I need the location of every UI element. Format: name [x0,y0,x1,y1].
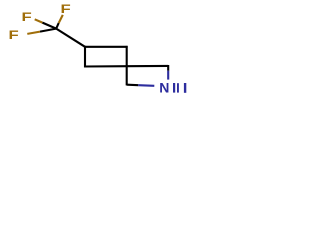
cyclobutane right edge + azetidine left edge (shared vertical) [126,46,128,86]
azetidine bottom bond C-N (black half) [127,84,139,87]
svg-text:F: F [22,11,32,24]
svg-text:N: N [159,80,169,96]
azetidine right bond C-N (black half) [167,65,169,71]
azetidine right bond C-N (N half, blue) [167,71,169,80]
svg-text:F: F [61,3,71,16]
cyclobutane top edge [84,46,128,48]
nitrogen label H (middle stem) [177,83,179,92]
svg-text:F: F [9,29,19,42]
bond C-F3 (black half) [40,29,56,32]
bond C-F1 (F half) [59,15,63,23]
cyclobutane left edge [84,46,86,68]
bond C-F1 (black half) [56,23,59,29]
bond C-F2 (black half) [42,23,56,29]
azetidine bottom bond C-N (N half, blue) [138,84,154,87]
bond C-ring [56,29,85,47]
bond C-F2 (F half) [35,19,43,22]
cyclobutane bottom edge + azetidine top edge (shared horizontal) [84,65,168,68]
nitrogen label H (right stem) [184,83,186,93]
nitrogen label H (left stem) [173,83,175,93]
molecule: 6-(trifluoromethyl)-2-azaspiro[3.3]heptane [0,0,200,100]
bond C-F3 (F half) [27,32,40,34]
